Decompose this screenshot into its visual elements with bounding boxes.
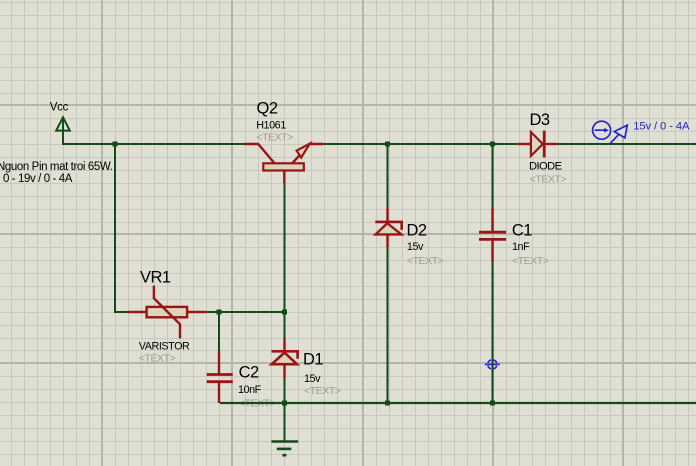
svg-text:D2: D2 — [407, 222, 427, 240]
svg-text:15v: 15v — [304, 373, 321, 385]
wire: bottom rail — [220, 402, 696, 404]
svg-text:C1: C1 — [512, 222, 532, 240]
svg-text:D1: D1 — [303, 350, 323, 368]
svg-text:D3: D3 — [530, 111, 550, 129]
wire: base vertical down to VR1 row — [284, 183, 286, 339]
C1 bottom pin — [491, 239, 493, 261]
wire: vertical from junction A down to VR1 level — [115, 144, 129, 312]
transistor Q2 — [245, 144, 324, 183]
svg-text:<TEXT>: <TEXT> — [139, 353, 176, 365]
svg-text:Q2: Q2 — [257, 99, 278, 117]
svg-text:<TEXT>: <TEXT> — [256, 132, 293, 144]
svg-text:Vcc: Vcc — [50, 101, 69, 113]
wire: D3 to right edge — [558, 143, 696, 145]
svg-text:<TEXT>: <TEXT> — [304, 385, 341, 397]
D2 anode pin — [386, 234, 388, 247]
wire: emitter to D3 — [323, 143, 517, 145]
node H junction dot (C1 at rail) — [490, 401, 495, 406]
wire: C2 branch vertical — [218, 312, 220, 351]
svg-text:<TEXT>: <TEXT> — [530, 174, 567, 186]
svg-text:H1061: H1061 — [256, 120, 286, 132]
svg-text:VARISTOR: VARISTOR — [139, 341, 190, 353]
D3 cathode bar — [543, 131, 546, 158]
C1 bottom plate — [479, 238, 506, 241]
C2 bottom pin — [218, 382, 220, 403]
node E junction dot (D1 top) — [282, 310, 287, 315]
wire: D1 to bottom rail — [284, 379, 286, 404]
VR1 diagonal stroke — [154, 286, 180, 339]
probe circle arrowhead — [604, 128, 609, 133]
wire: C1 to bottom rail — [492, 262, 494, 404]
wire: Vcc rail top-left horizontal — [63, 118, 245, 144]
capacitor C1 — [479, 208, 506, 262]
wire: D2 to bottom rail — [387, 247, 389, 403]
probe circle — [593, 121, 611, 139]
D3 anode triangle — [531, 132, 543, 156]
svg-text:15v: 15v — [407, 241, 424, 253]
varistor VR1 — [128, 286, 207, 339]
node F junction dot (D1/gnd at rail) — [282, 401, 287, 406]
base stub — [283, 171, 285, 184]
diode D3 — [517, 131, 557, 158]
svg-text:C2: C2 — [239, 364, 259, 382]
VR1 body — [147, 307, 188, 317]
collector pin — [245, 144, 275, 164]
ground bar 2 — [277, 448, 292, 451]
svg-text:<TEXT>: <TEXT> — [512, 255, 549, 267]
power symbol Vcc arrow — [56, 117, 70, 130]
wire: D2 branch vertical — [387, 144, 389, 209]
node D junction dot (C2 branch) — [217, 310, 222, 315]
VR1 right pin — [187, 311, 207, 313]
C2 top pin — [218, 351, 220, 375]
D2 cathode pin — [386, 208, 388, 222]
D1 anode pin — [283, 364, 285, 378]
wire: VR1 to D1 junction — [207, 311, 285, 313]
D2 cathode bar — [375, 222, 401, 230]
emitter lead — [292, 144, 323, 164]
svg-text:15v / 0 - 4A: 15v / 0 - 4A — [633, 120, 690, 132]
capacitor C2 — [207, 351, 233, 404]
svg-text:Nguon Pin mat troi 65W.: Nguon Pin mat troi 65W. — [0, 161, 113, 173]
node G junction dot (D2 at rail) — [385, 401, 390, 406]
VR1 left pin — [128, 311, 147, 313]
svg-text:<TEXT>: <TEXT> — [407, 255, 444, 267]
svg-text:DIODE: DIODE — [529, 160, 562, 172]
node A junction dot — [113, 142, 118, 147]
D3 anode pin — [517, 143, 530, 145]
node B junction dot (D2 branch) — [385, 142, 390, 147]
svg-text:VR1: VR1 — [140, 269, 171, 287]
C2 top plate — [207, 373, 233, 376]
origin marker (blue crosshair) — [485, 360, 500, 369]
ground — [271, 403, 298, 455]
ground bar 1 — [271, 440, 298, 443]
wire: C1 branch vertical — [492, 144, 494, 209]
C1 top plate — [479, 231, 506, 234]
emitter arrow — [297, 144, 310, 158]
probe: blue current probe circle — [593, 121, 628, 144]
probe circle arrow line — [595, 129, 606, 131]
C1 top pin — [491, 208, 493, 232]
diode D2 (zener) — [375, 208, 401, 247]
D1 cathode pin — [283, 339, 285, 352]
svg-text:0 - 19v / 0 - 4A: 0 - 19v / 0 - 4A — [3, 173, 73, 185]
ground bar 3 — [282, 454, 286, 457]
D1 cathode bar — [271, 351, 297, 359]
svg-text:1nF: 1nF — [512, 241, 530, 253]
ground stem — [284, 403, 286, 441]
D3 cathode pin — [545, 143, 558, 145]
C2 bottom plate — [207, 380, 233, 383]
base bar — [263, 163, 304, 170]
diode D1 (zener) — [271, 339, 297, 379]
probe pointer tail — [610, 135, 619, 144]
probe pointer arrowhead — [614, 125, 627, 138]
svg-text:10nF: 10nF — [238, 384, 262, 396]
node C junction dot (C1 branch) — [490, 142, 495, 147]
D1 anode triangle — [272, 353, 297, 365]
D2 anode triangle — [376, 223, 402, 234]
